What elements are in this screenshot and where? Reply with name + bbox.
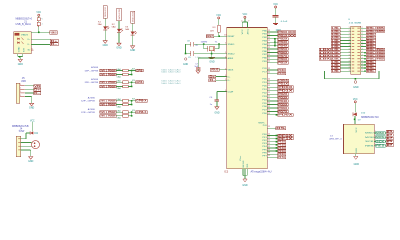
svg-text:J11 SMB: J11 SMB — [349, 23, 362, 25]
svg-text:SCK: SCK — [376, 140, 385, 143]
svg-text:RESET: RESET — [207, 35, 214, 38]
svg-text:5A0: 5A0 — [116, 105, 121, 108]
svg-text:PF3: PF3 — [262, 143, 266, 145]
svg-text:2: 2 — [362, 30, 363, 32]
svg-text:PF4: PF4 — [262, 146, 266, 148]
svg-text:1: 1 — [20, 88, 21, 90]
svg-text:2: 2 — [362, 54, 363, 56]
svg-text:K9: K9 — [132, 68, 135, 70]
svg-text:1: 1 — [349, 39, 350, 41]
svg-text:VB: VB — [34, 85, 40, 88]
svg-text:LBX: LBX — [320, 58, 331, 61]
svg-text:A7486: A7486 — [88, 108, 96, 111]
svg-text:UCAP: UCAP — [228, 90, 234, 93]
svg-text:PF7X: PF7X — [278, 156, 285, 159]
svg-text:VCC: VCC — [353, 98, 358, 101]
svg-text:5A0: 5A0 — [116, 75, 121, 78]
svg-text:PD0X: PD0X — [278, 114, 293, 117]
svg-text:13: 13 — [224, 35, 226, 37]
svg-text:PC6: PC6 — [263, 125, 267, 127]
svg-text:XTAL2: XTAL2 — [228, 53, 236, 56]
svg-text:K9: K9 — [132, 99, 135, 101]
svg-text:2: 2 — [362, 61, 363, 63]
svg-text:1: 1 — [349, 54, 350, 56]
svg-text:L1: L1 — [41, 23, 44, 25]
svg-text:RESET: RESET — [228, 36, 236, 38]
svg-text:GPI8: GPI8 — [136, 81, 143, 84]
svg-text:0.1uF: 0.1uF — [281, 21, 288, 23]
svg-text:2: 2 — [362, 33, 363, 35]
svg-text:2: 2 — [362, 27, 363, 29]
svg-text:5V0LED3: 5V0LED3 — [132, 11, 134, 22]
svg-text:PD0: PD0 — [262, 86, 266, 88]
svg-text:5A0 5A0 5A0: 5A0 5A0 5A0 — [161, 70, 182, 73]
svg-text:PF0: PF0 — [262, 134, 266, 136]
svg-text:GND: GND — [183, 63, 188, 66]
svg-text:RS: RS — [276, 127, 286, 130]
svg-text:PD7: PD7 — [262, 110, 266, 112]
svg-text:1: 1 — [349, 67, 350, 69]
svg-text:5: 5 — [32, 48, 33, 50]
svg-text:1: 1 — [349, 45, 350, 47]
svg-text:K9: K9 — [132, 80, 135, 82]
svg-text:XTAL1: XTAL1 — [228, 43, 236, 46]
svg-text:12: 12 — [268, 126, 270, 128]
svg-text:PD1: PD1 — [262, 82, 266, 84]
svg-text:MISO: MISO — [376, 132, 384, 135]
svg-text:1: 1 — [349, 42, 350, 44]
svg-text:VCC: VCC — [216, 14, 221, 17]
svg-text:1: 1 — [349, 70, 350, 72]
svg-text:UVcc: UVcc — [240, 156, 242, 161]
svg-text:1: 1 — [20, 84, 21, 86]
svg-text:MBB05CRLT10: MBB05CRLT10 — [361, 117, 379, 119]
svg-text:PD6: PD6 — [262, 106, 266, 108]
svg-text:C8: C8 — [195, 45, 197, 47]
svg-text:2: 2 — [362, 58, 363, 60]
svg-text:1: 1 — [349, 30, 350, 32]
svg-text:1: 1 — [20, 91, 21, 93]
svg-text:2: 2 — [362, 51, 363, 53]
svg-text:D-: D- — [209, 79, 215, 82]
svg-text:1: 1 — [225, 75, 226, 77]
svg-text:1: 1 — [349, 33, 350, 35]
svg-text:PB1: PB1 — [262, 34, 266, 36]
svg-text:ATmega328/4–AU: ATmega328/4–AU — [251, 170, 272, 173]
svg-text:I2F–GPI8: I2F–GPI8 — [85, 82, 100, 84]
svg-text:XX: XX — [289, 34, 296, 37]
svg-text:VCC: VCC — [356, 127, 358, 133]
svg-text:PD2: PD2 — [262, 92, 266, 94]
svg-text:RB: RB — [376, 30, 384, 33]
svg-text:PB2: PB2 — [262, 37, 266, 39]
svg-text:4: 4 — [241, 21, 242, 23]
svg-text:PB1: PB1 — [262, 61, 266, 63]
svg-text:VBUS: VBUS — [21, 34, 29, 36]
svg-text:SCK: SCK — [365, 141, 375, 143]
svg-text:C8: C8 — [187, 40, 190, 42]
svg-text:RES: RES — [376, 145, 385, 148]
svg-text:RB: RB — [376, 58, 384, 61]
svg-text:GND: GND — [354, 163, 360, 166]
svg-text:2: 2 — [362, 42, 363, 44]
svg-text:C9: C9 — [188, 57, 191, 59]
svg-text:A7486: A7486 — [91, 78, 99, 81]
svg-text:PB3: PB3 — [262, 41, 266, 43]
svg-text:1: 1 — [349, 51, 350, 53]
svg-text:1: 1 — [225, 52, 226, 54]
svg-text:PD1: PD1 — [262, 89, 266, 91]
svg-text:GPI8-X: GPI8-X — [136, 100, 147, 103]
svg-text:2: 2 — [362, 48, 363, 50]
svg-text:A7486: A7486 — [91, 66, 99, 69]
svg-text:F1: F1 — [41, 19, 44, 21]
svg-text:PC6: PC6 — [262, 68, 266, 70]
svg-text:5A0: 5A0 — [116, 87, 121, 90]
svg-text:5V0 1 PB0W: 5V0 1 PB0W — [100, 81, 116, 84]
svg-text:VCC: VCC — [273, 3, 278, 6]
svg-text:LBL: LBL — [332, 70, 341, 73]
svg-text:MOSI: MOSI — [365, 137, 374, 139]
svg-text:1: 1 — [20, 95, 21, 97]
svg-text:I2F–GPI8: I2F–GPI8 — [81, 101, 96, 103]
svg-text:GND: GND — [209, 61, 214, 64]
svg-text:GND: GND — [215, 112, 220, 115]
svg-text:aHB–BP–4: aHB–BP–4 — [329, 138, 342, 140]
svg-text:5V0 1 PB0W: 5V0 1 PB0W — [100, 85, 116, 88]
svg-text:5×5W: 5×5W — [19, 130, 25, 133]
svg-text:GND: GND — [130, 49, 135, 52]
svg-text:PF1: PF1 — [262, 137, 266, 139]
svg-text:2: 2 — [362, 64, 363, 66]
svg-text:VBUS: VBUS — [211, 69, 219, 72]
svg-text:PB0: PB0 — [262, 58, 266, 60]
svg-text:GND GND: GND GND — [243, 160, 245, 168]
svg-text:PB4: PB4 — [262, 44, 266, 46]
svg-text:PB0: PB0 — [262, 30, 266, 32]
svg-text:1: 1 — [225, 79, 226, 81]
svg-text:GPI8: GPI8 — [136, 69, 143, 72]
svg-text:1: 1 — [349, 58, 350, 60]
svg-text:2: 2 — [362, 36, 363, 38]
svg-text:2: 2 — [362, 70, 363, 72]
svg-text:5A0: 5A0 — [116, 117, 121, 120]
svg-text:PF7: PF7 — [262, 156, 266, 158]
svg-text:5V0 1 PB0W: 5V0 1 PB0W — [100, 69, 116, 72]
svg-text:MOSI: MOSI — [376, 136, 385, 139]
svg-text:PB6: PB6 — [262, 51, 266, 53]
svg-text:RES: RES — [365, 146, 375, 148]
svg-text:5V0LED2: 5V0LED2 — [119, 8, 121, 19]
svg-text:VBUS: VBUS — [51, 31, 57, 34]
svg-text:1: 1 — [225, 57, 226, 59]
svg-text:PD3: PD3 — [262, 96, 266, 98]
svg-text:GND: GND — [242, 184, 247, 187]
svg-text:PD0: PD0 — [262, 79, 266, 81]
svg-text:2: 2 — [362, 45, 363, 47]
svg-text:PD4: PD4 — [262, 99, 266, 101]
svg-text:GND: GND — [116, 47, 121, 50]
svg-text:5V0LED1: 5V0LED1 — [105, 6, 107, 17]
svg-text:I2F–GPI8: I2F–GPI8 — [85, 70, 100, 72]
svg-text:1: 1 — [349, 27, 350, 29]
svg-text:1: 1 — [225, 90, 226, 92]
svg-text:5V0 1 PB0W: 5V0 1 PB0W — [100, 115, 116, 118]
svg-text:2: 2 — [362, 39, 363, 41]
svg-text:PF6: PF6 — [262, 152, 266, 154]
svg-text:K9: K9 — [132, 110, 135, 112]
svg-text:PC7: PC7 — [262, 72, 266, 74]
svg-text:16MHг: 16MHг — [201, 41, 208, 43]
svg-text:1: 1 — [349, 61, 350, 63]
svg-text:RBL: RBL — [367, 70, 376, 73]
svg-text:PC7X: PC7X — [278, 72, 285, 75]
svg-text:MISO: MISO — [365, 133, 374, 135]
svg-text:1: 1 — [349, 48, 350, 50]
svg-text:VCC: VCC — [36, 11, 41, 14]
svg-text:5V0 1 PB0W: 5V0 1 PB0W — [100, 111, 116, 114]
svg-text:PF5: PF5 — [262, 149, 266, 151]
svg-text:GND: GND — [353, 86, 359, 89]
svg-text:10R: 10R — [210, 31, 214, 33]
svg-text:PF2: PF2 — [262, 140, 266, 142]
svg-text:GND: GND — [103, 44, 108, 47]
svg-text:5V0 1 PB0W: 5V0 1 PB0W — [100, 73, 116, 76]
svg-text:VCC: VCC — [242, 28, 244, 34]
svg-text:1: 1 — [225, 43, 226, 45]
svg-text:A7486: A7486 — [88, 97, 96, 100]
svg-text:AREF: AREF — [228, 57, 234, 60]
svg-text:GND: GND — [247, 163, 249, 168]
svg-text:D−: D− — [28, 44, 31, 46]
svg-text:1: 1 — [225, 68, 226, 70]
svg-text:PD5: PD5 — [262, 103, 266, 105]
svg-text:PB7: PB7 — [262, 54, 266, 56]
svg-text:GND: GND — [18, 63, 23, 66]
svg-text:GND: GND — [19, 46, 21, 52]
svg-text:7: 7 — [248, 21, 249, 23]
svg-text:2: 2 — [362, 67, 363, 69]
svg-text:AVCC: AVCC — [246, 28, 249, 34]
svg-text:I2F–GPI8: I2F–GPI8 — [81, 112, 96, 114]
svg-text:PB5: PB5 — [262, 47, 266, 49]
svg-text:PB1X: PB1X — [278, 62, 288, 65]
svg-text:PD0: PD0 — [262, 113, 266, 115]
svg-text:5A0 5A0 5A0: 5A0 5A0 5A0 — [161, 82, 182, 85]
svg-text:1: 1 — [349, 36, 350, 38]
svg-text:1: 1 — [349, 64, 350, 66]
svg-text:USB: USB — [21, 80, 26, 83]
svg-text:GND: GND — [29, 107, 34, 110]
svg-text:5V0 1 PB0W: 5V0 1 PB0W — [100, 103, 116, 106]
svg-text:GND: GND — [356, 147, 358, 153]
svg-text:VBUS: VBUS — [228, 70, 234, 72]
svg-text:GPI8-X: GPI8-X — [136, 111, 147, 114]
svg-text:VCC: VCC — [243, 13, 248, 16]
svg-text:USB_B_Micro: USB_B_Micro — [16, 23, 32, 26]
svg-text:5V0 1 PB0W: 5V0 1 PB0W — [100, 100, 116, 103]
svg-text:GND: GND — [28, 160, 33, 163]
